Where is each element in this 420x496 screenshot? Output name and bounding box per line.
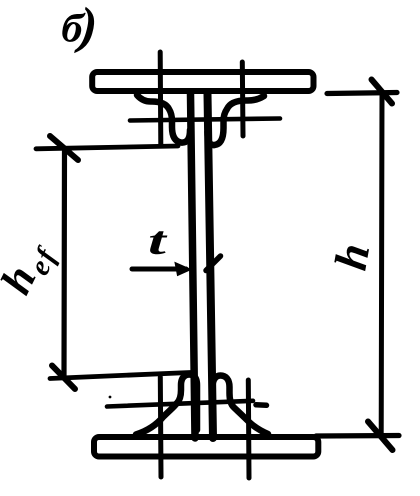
dimension h bottom extension line	[316, 433, 399, 439]
centerline bottom horizontal	[107, 401, 253, 407]
centerline top-right vertical	[240, 62, 246, 136]
centerline bottom horizontal dash	[256, 402, 267, 408]
svg-text:hef: hef	[0, 231, 64, 304]
fillet top-right	[208, 96, 265, 145]
svg-text:h: h	[325, 240, 380, 274]
dimension h_ef bottom tick	[52, 366, 75, 390]
dimension h top extension line	[327, 93, 397, 94]
t tick on web right	[206, 256, 221, 271]
t arrowhead	[175, 263, 191, 276]
t leader line	[132, 267, 186, 272]
bottom flange	[94, 437, 318, 457]
dimension h line	[379, 93, 385, 436]
centerline bottom-right vertical	[246, 380, 252, 478]
fillet bottom-right	[213, 376, 269, 435]
svg-text:t: t	[148, 218, 168, 263]
fillet bottom-left	[136, 375, 197, 435]
web right line	[208, 94, 214, 438]
centerline bottom-left vertical	[158, 377, 164, 477]
dimension h top tick	[372, 80, 393, 104]
fillet top-left	[137, 95, 190, 143]
dimension h bottom tick	[368, 422, 393, 451]
dimension h_ef line	[61, 149, 67, 377]
web left line	[191, 94, 196, 438]
centerline top horizontal	[130, 119, 280, 121]
dimension h_ef bottom extension line	[50, 373, 190, 379]
centerline top-left vertical	[158, 52, 164, 145]
dimension h_ef top extension line	[36, 146, 178, 149]
speck	[109, 396, 112, 399]
dimension h_ef top tick	[50, 136, 78, 160]
top flange	[92, 72, 313, 91]
